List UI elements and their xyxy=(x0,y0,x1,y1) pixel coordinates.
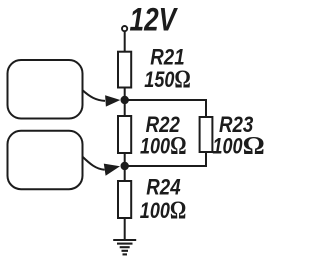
resistor R22 xyxy=(118,116,131,153)
svg-text:100Ω: 100Ω xyxy=(140,196,187,223)
arrow from box 1 to node A xyxy=(82,90,120,107)
wire node A to R22 xyxy=(124,100,126,116)
svg-text:100Ω: 100Ω xyxy=(140,132,187,159)
wire node A to R23 top xyxy=(125,100,206,117)
power terminal 12V xyxy=(122,26,127,31)
resistor R21 xyxy=(118,52,131,88)
wire terminal to R21 xyxy=(124,32,126,53)
wire R23 bottom to node B xyxy=(125,152,206,166)
node B junction dot xyxy=(121,162,129,170)
callout box 2 xyxy=(8,131,83,190)
svg-text:12V: 12V xyxy=(130,3,179,38)
wire R21 to node A xyxy=(124,88,126,101)
resistor R23 xyxy=(200,117,213,152)
wire R22 to node B xyxy=(124,153,126,166)
arrow from box 2 to node B xyxy=(82,157,120,176)
node A junction dot xyxy=(121,96,129,104)
callout box 1 xyxy=(8,60,83,119)
wire R24 to ground xyxy=(124,218,126,240)
svg-text:150Ω: 150Ω xyxy=(144,65,191,92)
resistor R24 xyxy=(118,181,131,218)
svg-text:100Ω: 100Ω xyxy=(213,132,265,159)
wire node B to R24 xyxy=(124,166,126,181)
ground xyxy=(113,240,136,254)
